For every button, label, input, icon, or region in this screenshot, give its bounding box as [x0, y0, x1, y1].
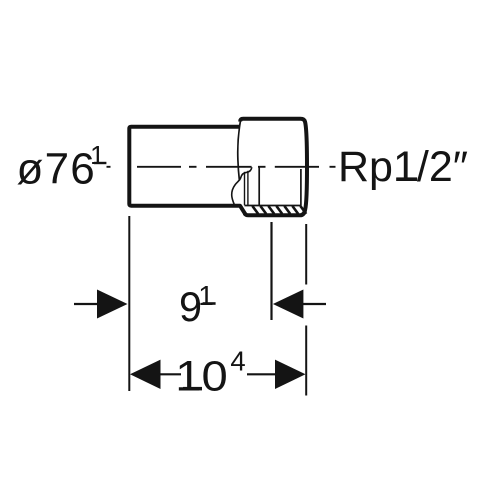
- svg-text:ø76: ø76: [17, 145, 96, 194]
- hatch top line (thread crest): [245, 205, 302, 207]
- dim 9 right arrowhead: [273, 290, 304, 319]
- svg-text:1: 1: [198, 280, 214, 311]
- thread start chamfer line a: [244, 172, 246, 206]
- thread inner right line: [300, 169, 302, 205]
- dim 10 left arrow line: [160, 373, 181, 375]
- dim 10 right arrowhead: [275, 360, 306, 389]
- dim 9 left arrow line: [74, 303, 98, 305]
- svg-text:1: 1: [90, 140, 104, 170]
- svg-text:4: 4: [230, 346, 245, 377]
- extension line right upper: [305, 224, 307, 285]
- centerline (dash-dot axis): [107, 166, 336, 168]
- pipe body outline: [129, 127, 246, 215]
- foot of superscript 1 of 9: [203, 302, 216, 305]
- extension line middle (x=271.5): [270, 222, 272, 320]
- dim 10 right arrow line: [247, 373, 276, 375]
- socket left edge (curved face line): [238, 121, 241, 180]
- foot of 1 in Rp1/2: [396, 177, 417, 181]
- foot of superscript 1: [94, 162, 106, 164]
- svg-text:10: 10: [175, 352, 228, 400]
- break line (freehand): [232, 167, 252, 204]
- svg-text:Rp1/2″: Rp1/2″: [338, 143, 468, 191]
- dim 10 left arrowhead: [130, 360, 161, 389]
- foot of 1 in 10: [183, 387, 202, 391]
- socket outline: [240, 119, 307, 216]
- extension line left (x=129): [128, 216, 130, 391]
- dim 9 left arrowhead: [97, 290, 128, 319]
- bore end line: [258, 168, 260, 206]
- extension line right lower: [305, 326, 307, 396]
- thread start chamfer line b: [247, 171, 249, 206]
- dim 9 right arrow line: [303, 303, 326, 305]
- thread hatch stripes: [252, 206, 306, 214]
